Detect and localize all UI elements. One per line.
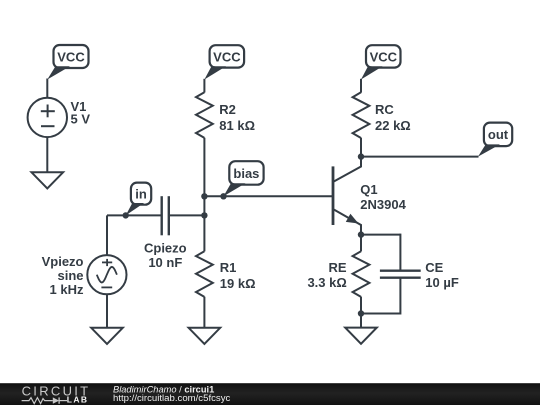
svg-text:out: out xyxy=(488,127,509,142)
wire R1 to ground xyxy=(203,297,205,328)
svg-text:5 V: 5 V xyxy=(71,112,91,127)
svg-text:19 kΩ: 19 kΩ xyxy=(220,276,256,291)
svg-text:22 kΩ: 22 kΩ xyxy=(375,118,411,133)
logo CIRCUIT LAB xyxy=(22,383,91,404)
capacitor CE xyxy=(380,260,459,290)
net label bias xyxy=(224,161,264,196)
wire Vpiezo to ground xyxy=(106,294,108,328)
svg-text:1 kHz: 1 kHz xyxy=(50,282,84,297)
net label VCC (V1 rail) xyxy=(47,45,88,80)
voltage source V1 xyxy=(28,98,91,137)
svg-text:Q1: Q1 xyxy=(360,182,377,197)
svg-text:RE: RE xyxy=(328,260,346,275)
ground (RE) xyxy=(345,328,377,344)
wire in to Vpiezo xyxy=(106,215,108,255)
svg-text:in: in xyxy=(135,187,147,202)
svg-text:10 µF: 10 µF xyxy=(425,275,459,290)
svg-text:sine: sine xyxy=(57,268,83,283)
voltage source Vpiezo xyxy=(42,254,127,297)
wire bias to Q1 base xyxy=(204,195,332,197)
svg-text:bias: bias xyxy=(233,166,259,181)
resistor RE xyxy=(307,235,369,297)
svg-text:3.3 kΩ: 3.3 kΩ xyxy=(307,275,346,290)
node in tap xyxy=(123,212,129,218)
wire Cpiezo to node xyxy=(169,214,205,216)
ground (R1) xyxy=(189,328,221,344)
transistor Q1 xyxy=(333,157,407,235)
wire R2 down through bias to R1 xyxy=(203,138,205,252)
node Cpiezo junction xyxy=(201,212,207,218)
net label out xyxy=(478,123,512,157)
svg-text:VCC: VCC xyxy=(213,49,241,64)
wire V1 to ground xyxy=(46,137,48,172)
svg-text:10 nF: 10 nF xyxy=(148,255,182,270)
net label VCC (R2) xyxy=(204,45,244,79)
wire emitter to CE top xyxy=(361,234,400,236)
resistor R1 xyxy=(196,251,256,297)
svg-text:81 kΩ: 81 kΩ xyxy=(219,118,255,133)
svg-text:2N3904: 2N3904 xyxy=(360,197,406,212)
wire RE to ground xyxy=(360,297,362,328)
ground (V1) xyxy=(32,172,64,188)
wire out xyxy=(361,156,479,158)
svg-text:R1: R1 xyxy=(220,260,237,275)
svg-text:http://circuitlab.com/c5fcsyc: http://circuitlab.com/c5fcsyc xyxy=(113,393,230,404)
wire VCC to R2 xyxy=(203,79,205,93)
svg-text:LAB: LAB xyxy=(67,395,89,405)
svg-text:VCC: VCC xyxy=(57,49,85,64)
wire VCC to V1 xyxy=(46,79,48,99)
node RE bottom xyxy=(358,310,364,316)
resistor RC xyxy=(353,92,411,138)
footer credits xyxy=(113,384,230,404)
svg-text:VCC: VCC xyxy=(370,49,398,64)
wire RC to collector node xyxy=(360,138,362,157)
resistor R2 xyxy=(196,92,255,138)
svg-text:Cpiezo: Cpiezo xyxy=(144,241,187,256)
ground (Vpiezo) xyxy=(91,328,123,344)
node bias tap xyxy=(220,193,226,199)
svg-text:CE: CE xyxy=(425,260,443,275)
svg-text:R2: R2 xyxy=(219,102,236,117)
wire CE top lead xyxy=(399,234,401,271)
node collector xyxy=(358,153,364,159)
net label in xyxy=(126,183,152,216)
wire CE bottom lead xyxy=(361,278,400,314)
node bias junction xyxy=(201,193,207,199)
node emitter xyxy=(358,231,364,237)
capacitor Cpiezo xyxy=(144,196,187,270)
svg-text:Vpiezo: Vpiezo xyxy=(42,254,84,269)
net label VCC (RC) xyxy=(361,45,401,79)
svg-text:RC: RC xyxy=(375,102,394,117)
wire Vpiezo to Cpiezo xyxy=(107,214,162,216)
wire VCC to RC xyxy=(360,79,362,93)
